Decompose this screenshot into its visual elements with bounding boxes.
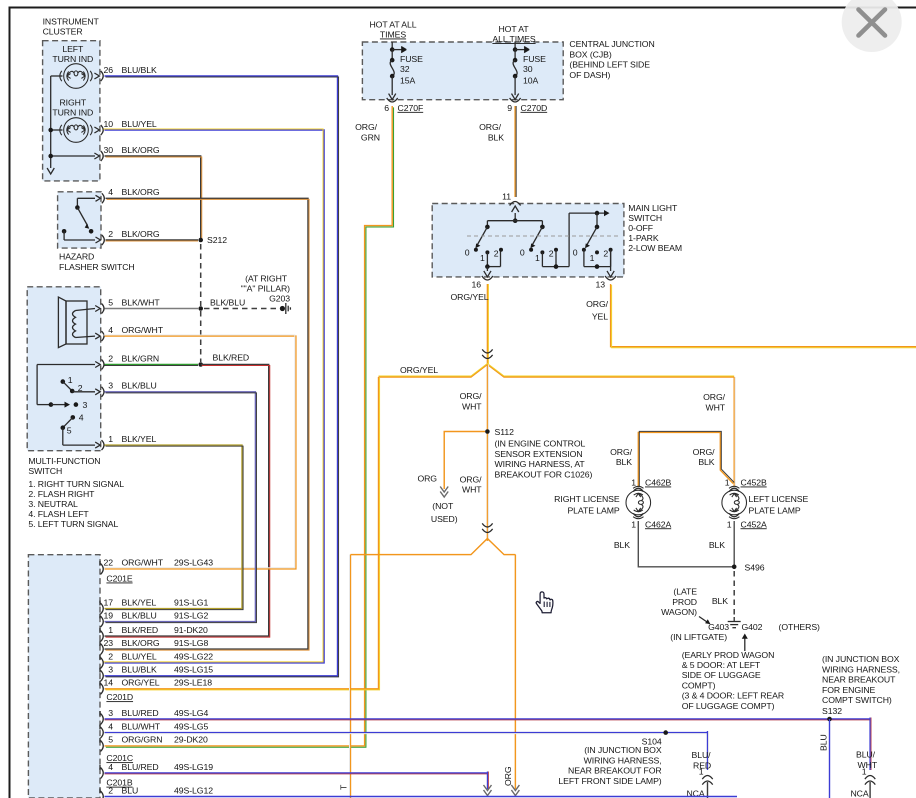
svg-text:26: 26: [103, 65, 113, 75]
svg-text:49S-LG12: 49S-LG12: [174, 785, 213, 795]
svg-text:ORG/YEL: ORG/YEL: [400, 365, 438, 375]
svg-text:1: 1: [590, 253, 595, 263]
wire dashed BLK S496 -> ground: [733, 571, 735, 617]
svg-text:WHT: WHT: [705, 403, 725, 413]
svg-text:2: 2: [603, 249, 608, 259]
svg-text:HAZARD: HAZARD: [59, 252, 94, 262]
svg-text:OF LUGGAGE COMPT): OF LUGGAGE COMPT): [682, 701, 775, 711]
svg-text:G203: G203: [269, 293, 290, 303]
svg-text:BLK: BLK: [488, 132, 504, 142]
wire BLK/ORG hazard pin4 -> C201E pin23: [105, 198, 309, 649]
svg-text:2: 2: [108, 652, 113, 662]
svg-text:1: 1: [631, 478, 636, 488]
svg-text:BLK/RED: BLK/RED: [213, 352, 250, 362]
main light switch box: [432, 204, 624, 277]
connector C270F pin 6: [387, 98, 398, 102]
svg-text:3: 3: [108, 665, 113, 675]
wire ORG/YEL pin13 -> right edge: [611, 284, 916, 347]
svg-text:ORG/YEL: ORG/YEL: [451, 292, 489, 302]
svg-text:C452A: C452A: [741, 519, 767, 529]
svg-text:ORG/: ORG/: [460, 391, 483, 401]
svg-text:5: 5: [108, 735, 113, 745]
switch positions 1-5: [37, 364, 95, 366]
svg-text:BLU: BLU: [819, 734, 829, 751]
svg-text:0-OFF: 0-OFF: [628, 223, 653, 233]
svg-text:1: 1: [862, 767, 867, 777]
pin 30 connector: [94, 153, 99, 159]
connector C462A pin 1 (right lamp): [633, 513, 643, 516]
svg-text:ORG/: ORG/: [586, 299, 609, 309]
svg-text:4. FLASH LEFT: 4. FLASH LEFT: [28, 509, 89, 519]
wire split: ORG/YEL branch left + ORG/WHT continues: [379, 365, 735, 378]
pin 2 connector: [95, 362, 100, 368]
svg-text:(NOT: (NOT: [432, 501, 454, 511]
svg-text:5. LEFT TURN SIGNAL: 5. LEFT TURN SIGNAL: [28, 519, 118, 529]
svg-text:WIRING HARNESS, AT: WIRING HARNESS, AT: [495, 459, 586, 469]
multi-function switch box: [27, 287, 101, 451]
svg-text:0: 0: [520, 247, 525, 257]
wire ORG/BLK C270D -> main light switch pin 11: [514, 106, 516, 197]
svg-text:BLK/BLU: BLK/BLU: [122, 381, 157, 391]
fuse 30 10A: [514, 42, 516, 50]
svg-text:BREAKOUT FOR C1026): BREAKOUT FOR C1026): [495, 469, 593, 479]
svg-text:3: 3: [108, 708, 113, 718]
svg-text:ORG/GRN: ORG/GRN: [122, 735, 163, 745]
svg-text:BLK/RED: BLK/RED: [122, 625, 159, 635]
svg-text:(AT RIGHT: (AT RIGHT: [245, 274, 288, 284]
svg-text:4: 4: [108, 762, 113, 772]
wire split ORG/WHT down-left and ORG down-right: [351, 539, 516, 555]
svg-text:5: 5: [67, 425, 72, 435]
splice S112: [485, 429, 490, 434]
svg-text:1: 1: [108, 434, 113, 444]
svg-text:C270D: C270D: [521, 103, 548, 113]
svg-text:YEL: YEL: [592, 311, 608, 321]
svg-text:INSTRUMENT: INSTRUMENT: [43, 16, 100, 26]
svg-text:29S-LE18: 29S-LE18: [174, 678, 212, 688]
svg-text:4: 4: [108, 187, 113, 197]
svg-text:BLK/ORG: BLK/ORG: [122, 229, 160, 239]
svg-text:ORG/: ORG/: [479, 122, 502, 132]
inline connector on ORG/WHT: [482, 523, 492, 527]
svg-text:BLK/WHT: BLK/WHT: [122, 297, 161, 307]
wire BLU/YEL pin10 -> C201E pin2: [105, 130, 325, 663]
connector C201 box: [28, 555, 100, 798]
svg-text:1. RIGHT TURN SIGNAL: 1. RIGHT TURN SIGNAL: [28, 479, 124, 489]
svg-text:1: 1: [108, 625, 113, 635]
svg-text:ORG/WHT: ORG/WHT: [122, 325, 164, 335]
svg-text:FUSE: FUSE: [400, 54, 423, 64]
svg-text:TIMES: TIMES: [380, 30, 406, 40]
svg-text:G403: G403: [708, 622, 729, 632]
svg-text:23: 23: [103, 638, 113, 648]
svg-text:1: 1: [631, 519, 636, 529]
wire BLU/RED C201D pin3 -> S132 -> NCA: [105, 718, 871, 720]
svg-text:BLK/ORG: BLK/ORG: [122, 187, 160, 197]
wire BLK/WHT pin5 -> splice: [105, 308, 199, 310]
svg-text:OF DASH): OF DASH): [569, 70, 610, 80]
svg-text:PLATE LAMP: PLATE LAMP: [567, 505, 619, 515]
svg-text:ORG/: ORG/: [703, 392, 726, 402]
wire ORG/WHT left leg to bottom edge: [350, 555, 352, 798]
svg-text:FLASHER SWITCH: FLASHER SWITCH: [59, 262, 135, 272]
wire: dashed BLK/BLU to G203: [204, 308, 278, 310]
pin 2 connector: [96, 237, 101, 243]
svg-text:9: 9: [507, 103, 512, 113]
C201 pin 14 ORG/YEL: [101, 683, 104, 694]
pin 10 connector: [94, 127, 99, 133]
wire BLK/GRN pin2 -> splice: [105, 364, 199, 366]
svg-text:1: 1: [480, 253, 485, 263]
svg-text:0: 0: [465, 247, 470, 257]
wire BLK/BLU pin3 -> C201E pin19: [105, 392, 256, 622]
svg-text:SWITCH: SWITCH: [628, 213, 662, 223]
svg-text:14: 14: [103, 678, 113, 688]
svg-text:49S-LG22: 49S-LG22: [174, 652, 213, 662]
connector C452B pin 1 (left lamp): [729, 488, 739, 491]
svg-text:1: 1: [535, 253, 540, 263]
pin 1 connector: [95, 442, 100, 448]
instrument cluster box: [43, 41, 100, 181]
svg-text:BLK/ORG: BLK/ORG: [122, 638, 160, 648]
svg-text:BLK: BLK: [616, 457, 632, 467]
hazard flasher switch box: [58, 192, 101, 248]
svg-text:29-DK20: 29-DK20: [174, 735, 208, 745]
svg-text:ALL TIMES: ALL TIMES: [492, 34, 536, 44]
svg-text:C452B: C452B: [741, 478, 767, 488]
svg-text:1: 1: [727, 519, 732, 529]
C201 pin 2 BLU/YEL: [101, 657, 104, 668]
C201 pin 2 BLU: [101, 791, 104, 798]
svg-text:COMPT SWITCH): COMPT SWITCH): [822, 695, 892, 705]
svg-text:S132: S132: [822, 706, 842, 716]
svg-text:LEFT: LEFT: [62, 44, 84, 54]
svg-text:2: 2: [549, 249, 554, 259]
arrow to G402: [744, 638, 746, 651]
svg-text:S212: S212: [207, 235, 227, 245]
node: bus junctions: [48, 128, 53, 133]
svg-text:(IN ENGINE CONTROL: (IN ENGINE CONTROL: [495, 439, 586, 449]
wire ORG right leg to bottom edge: [514, 555, 516, 789]
svg-text:3: 3: [83, 400, 88, 410]
svg-text:(3 & 4 DOOR: LEFT REAR: (3 & 4 DOOR: LEFT REAR: [682, 691, 784, 701]
gang dashed link: [467, 235, 620, 237]
svg-text:ORG: ORG: [417, 473, 437, 483]
svg-text:T: T: [339, 784, 349, 790]
ground G403/G402: [733, 617, 735, 621]
svg-text:2: 2: [494, 249, 499, 259]
pin 4 connector: [95, 333, 100, 339]
lamp: RIGHT TURN IND: [60, 118, 92, 143]
close button: [842, 0, 902, 52]
pin 4 connector: [96, 195, 101, 201]
splice S212: [198, 238, 203, 243]
svg-text:WHT: WHT: [858, 760, 878, 770]
svg-text:30: 30: [523, 64, 533, 74]
svg-text:2: 2: [108, 229, 113, 239]
svg-text:SIDE OF LUGGAGE: SIDE OF LUGGAGE: [682, 670, 761, 680]
svg-text:10: 10: [103, 119, 113, 129]
C201 pin 23 BLK/ORG: [101, 644, 104, 655]
svg-text:C270F: C270F: [398, 103, 424, 113]
C201 pin 5 ORG/GRN: [101, 740, 104, 751]
svg-text:(IN LIFTGATE): (IN LIFTGATE): [670, 632, 727, 642]
svg-text:PLATE LAMP: PLATE LAMP: [749, 505, 801, 515]
pin 5 connector: [95, 306, 100, 312]
svg-text:ORG/: ORG/: [693, 447, 716, 457]
svg-text:(LATE: (LATE: [673, 587, 697, 597]
horn/sounder symbol: [58, 297, 66, 348]
svg-text:17: 17: [103, 597, 113, 607]
svg-text:(IN JUNCTION BOX: (IN JUNCTION BOX: [822, 654, 900, 664]
svg-text:BLK/GRN: BLK/GRN: [122, 353, 160, 363]
wire BLK lamps -> S496: [638, 521, 734, 567]
svg-text:ORG: ORG: [503, 766, 513, 786]
svg-text:G402: G402: [742, 622, 763, 632]
lamp: LEFT LICENSE PLATE LAMP: [722, 486, 747, 518]
connector C462B pin 1 (right lamp): [633, 488, 643, 491]
svg-text:LEFT FRONT SIDE LAMP): LEFT FRONT SIDE LAMP): [558, 776, 661, 786]
svg-text:ORG/YEL: ORG/YEL: [122, 678, 160, 688]
svg-text:SWITCH: SWITCH: [28, 466, 62, 476]
svg-text:BLU/WHT: BLU/WHT: [122, 721, 161, 731]
svg-text:BLU/RED: BLU/RED: [122, 762, 159, 772]
svg-text:C462A: C462A: [645, 519, 671, 529]
svg-text:19: 19: [103, 610, 113, 620]
wire BLK/YEL pin1 -> C201E pin17: [105, 445, 243, 608]
svg-text:(OTHERS): (OTHERS): [779, 622, 821, 632]
pin 3 connector: [95, 389, 100, 395]
svg-text:RIGHT LICENSE: RIGHT LICENSE: [554, 494, 620, 504]
svg-text:30: 30: [103, 145, 113, 155]
wire ORG/WHT down through S112: [486, 365, 488, 542]
wire ORG branch (not used): [444, 432, 485, 490]
svg-text:49S-LG5: 49S-LG5: [174, 721, 208, 731]
svg-text:4: 4: [79, 413, 84, 423]
lamp: RIGHT LICENSE PLATE LAMP: [626, 486, 651, 518]
svg-text:MULTI-FUNCTION: MULTI-FUNCTION: [28, 456, 100, 466]
pin 13 exit: [610, 250, 612, 271]
C201 pin 4 BLU/WHT: [101, 727, 104, 738]
svg-text:BLK/ORG: BLK/ORG: [122, 145, 160, 155]
C201 pin 22 ORG/WHT: [101, 563, 104, 574]
svg-text:BLU/RED: BLU/RED: [122, 708, 159, 718]
svg-text:4: 4: [108, 325, 113, 335]
svg-text:5: 5: [108, 297, 113, 307]
wire ORG/GRN C270F -> C201D pin5: [105, 106, 393, 746]
svg-text:10A: 10A: [523, 76, 539, 86]
svg-text:BLU/YEL: BLU/YEL: [122, 652, 157, 662]
svg-text:BLU/BLK: BLU/BLK: [122, 65, 157, 75]
svg-text:22: 22: [103, 558, 113, 568]
node: splice on BLK/GRN row: [198, 362, 203, 367]
svg-text:FOR ENGINE: FOR ENGINE: [822, 685, 876, 695]
splice S104: [663, 730, 668, 735]
connector C452A pin 1 (left lamp): [729, 513, 739, 516]
svg-text:BLU/: BLU/: [856, 750, 876, 760]
svg-text:1: 1: [699, 767, 704, 777]
svg-text:NEAR BREAKOUT FOR: NEAR BREAKOUT FOR: [568, 766, 662, 776]
svg-text:GRN: GRN: [361, 132, 380, 142]
svg-text:1: 1: [68, 375, 73, 385]
svg-text:C201B: C201B: [106, 778, 132, 788]
ground G203 (at right A pillar): [280, 306, 285, 311]
connector C270D pin 9: [510, 98, 521, 102]
svg-text:WHT: WHT: [462, 485, 482, 495]
wire BLU/BLK pin26 -> C201E pin3 (long): [105, 76, 338, 676]
svg-text:1: 1: [725, 478, 730, 488]
arrow to G403: [699, 617, 709, 624]
svg-text:0: 0: [573, 247, 578, 257]
svg-text:NEAR BREAKOUT: NEAR BREAKOUT: [822, 675, 896, 685]
svg-text:2: 2: [108, 353, 113, 363]
svg-text:BLK: BLK: [698, 457, 714, 467]
svg-text:ORG/WHT: ORG/WHT: [122, 558, 164, 568]
svg-text:32: 32: [400, 64, 410, 74]
pin 16 exit: [486, 267, 488, 271]
wire BLK/RED splice -> C201E pin1: [105, 365, 269, 637]
C201 pin 4 BLU/RED: [101, 768, 104, 779]
svg-text:15A: 15A: [400, 76, 416, 86]
svg-text:BLK: BLK: [614, 540, 630, 550]
wire ORG/WHT right branch down to left lamp: [733, 377, 735, 486]
svg-text:(IN JUNCTION BOX: (IN JUNCTION BOX: [584, 745, 662, 755]
svg-text:13: 13: [595, 280, 605, 290]
wire: dashed BLK S212 down to BLK/WHT row: [200, 244, 202, 306]
svg-text:49S-LG4: 49S-LG4: [174, 708, 208, 718]
svg-text:WIRING HARNESS,: WIRING HARNESS,: [584, 755, 662, 765]
fuse 32 15A: [391, 42, 393, 50]
inline connector on ORG/YEL: [482, 349, 492, 353]
wire: dashed BLK down to BLK/GRN row: [200, 311, 202, 362]
svg-text:BLK/YEL: BLK/YEL: [122, 597, 157, 607]
switch: hazard contacts: [77, 197, 95, 199]
svg-text:6: 6: [384, 103, 389, 113]
svg-text:HOT AT: HOT AT: [498, 24, 529, 34]
svg-text:COMPT): COMPT): [682, 680, 716, 690]
svg-text:S496: S496: [745, 562, 765, 572]
svg-text:BLK: BLK: [709, 540, 725, 550]
svg-text:LEFT LICENSE: LEFT LICENSE: [749, 494, 809, 504]
wire ORG/WHT pin4 -> C201E pin22: [105, 336, 296, 569]
C201 pin 1 BLK/RED: [101, 631, 104, 642]
svg-text:TURN IND: TURN IND: [52, 54, 93, 64]
svg-text:11: 11: [502, 192, 511, 202]
svg-text:49S-LG15: 49S-LG15: [174, 665, 213, 675]
wire BLU/RED C201C pin4 -> bottom arrow: [105, 772, 488, 774]
C201 pin 17 BLK/YEL: [101, 603, 104, 614]
svg-text:49S-LG19: 49S-LG19: [174, 762, 213, 772]
svg-text:16: 16: [471, 280, 481, 290]
svg-text:3: 3: [108, 381, 113, 391]
svg-text:WIRING HARNESS,: WIRING HARNESS,: [822, 664, 900, 674]
wire BLK/ORG hazard pin2 -> S212: [106, 239, 199, 241]
splice S496: [732, 565, 737, 570]
C201 pin 3 BLU/BLK: [101, 670, 104, 681]
svg-text:PROD: PROD: [672, 597, 697, 607]
wire BLU S132 down: [829, 719, 831, 798]
wire BLU C201B pin2: [105, 796, 738, 798]
svg-text:WHT: WHT: [462, 401, 482, 411]
svg-text:2. FLASH RIGHT: 2. FLASH RIGHT: [28, 489, 95, 499]
svg-text:C201D: C201D: [106, 692, 133, 702]
svg-text:FUSE: FUSE: [523, 54, 546, 64]
svg-text:WAGON): WAGON): [661, 607, 697, 617]
svg-text:CLUSTER: CLUSTER: [43, 27, 83, 37]
coil: [73, 311, 76, 338]
svg-text:BOX (CJB): BOX (CJB): [569, 49, 611, 59]
wire BLK/ORG pin30 -> S212: [105, 156, 201, 240]
svg-text:C201E: C201E: [106, 574, 132, 584]
svg-text:1-PARK: 1-PARK: [628, 233, 659, 243]
svg-text:& 5 DOOR: AT LEFT: & 5 DOOR: AT LEFT: [682, 660, 761, 670]
mouse cursor: [536, 592, 553, 613]
switch internals: [514, 213, 516, 221]
svg-text:MAIN LIGHT: MAIN LIGHT: [628, 203, 678, 213]
wire: cluster internal bus: [51, 75, 63, 77]
svg-text:ORG/: ORG/: [355, 122, 378, 132]
svg-text:(EARLY PROD WAGON: (EARLY PROD WAGON: [682, 650, 775, 660]
svg-text:BLK: BLK: [712, 596, 728, 606]
svg-text:BLU/BLK: BLU/BLK: [122, 665, 157, 675]
svg-text:TURN IND: TURN IND: [52, 108, 93, 118]
svg-text:2-LOW BEAM: 2-LOW BEAM: [628, 243, 682, 253]
svg-text:C201C: C201C: [106, 753, 133, 763]
svg-text:BLU/: BLU/: [692, 750, 712, 760]
pin 26 connector: [94, 73, 99, 79]
svg-text:BLK/BLU: BLK/BLU: [122, 610, 157, 620]
svg-text:""A" PILLAR): ""A" PILLAR): [241, 283, 291, 293]
svg-text:ORG/: ORG/: [460, 474, 483, 484]
svg-text:NCA: NCA: [850, 789, 868, 798]
svg-text:BLU/YEL: BLU/YEL: [122, 119, 157, 129]
svg-text:BLK/YEL: BLK/YEL: [122, 434, 157, 444]
svg-text:BLK/BLU: BLK/BLU: [210, 297, 245, 307]
svg-text:(BEHIND LEFT SIDE: (BEHIND LEFT SIDE: [569, 60, 650, 70]
svg-text:29S-LG43: 29S-LG43: [174, 558, 213, 568]
wire ORG/YEL pin16 down: [486, 284, 488, 365]
svg-text:91S-LG8: 91S-LG8: [174, 638, 208, 648]
pin 11 connector: [510, 202, 521, 206]
svg-text:RIGHT: RIGHT: [59, 98, 86, 108]
lamp: LEFT TURN IND: [60, 64, 92, 89]
wire BLU/WHT C201D pin4 -> S104 -> NCA: [105, 732, 708, 734]
svg-text:USED): USED): [431, 514, 458, 524]
svg-text:ORG/: ORG/: [610, 447, 633, 457]
svg-text:CENTRAL JUNCTION: CENTRAL JUNCTION: [569, 39, 654, 49]
svg-text:91S-LG2: 91S-LG2: [174, 610, 208, 620]
svg-text:3. NEUTRAL: 3. NEUTRAL: [28, 499, 78, 509]
svg-text:C462B: C462B: [645, 478, 671, 488]
C201 pin 3 BLU/RED: [101, 714, 104, 725]
svg-text:HOT AT ALL: HOT AT ALL: [369, 19, 416, 29]
svg-text:4: 4: [108, 721, 113, 731]
central junction box (CJB): [362, 42, 563, 100]
svg-text:S112: S112: [495, 427, 515, 437]
wire ORG/BLK loop joining both lamps: [638, 432, 733, 487]
C201 pin 19 BLK/BLU: [101, 616, 104, 627]
svg-text:91-DK20: 91-DK20: [174, 625, 208, 635]
svg-text:SENSOR EXTENSION: SENSOR EXTENSION: [495, 449, 583, 459]
svg-text:91S-LG1: 91S-LG1: [174, 597, 208, 607]
splice S132: [827, 717, 832, 722]
node: splice on BLK/WHT row: [198, 306, 203, 311]
